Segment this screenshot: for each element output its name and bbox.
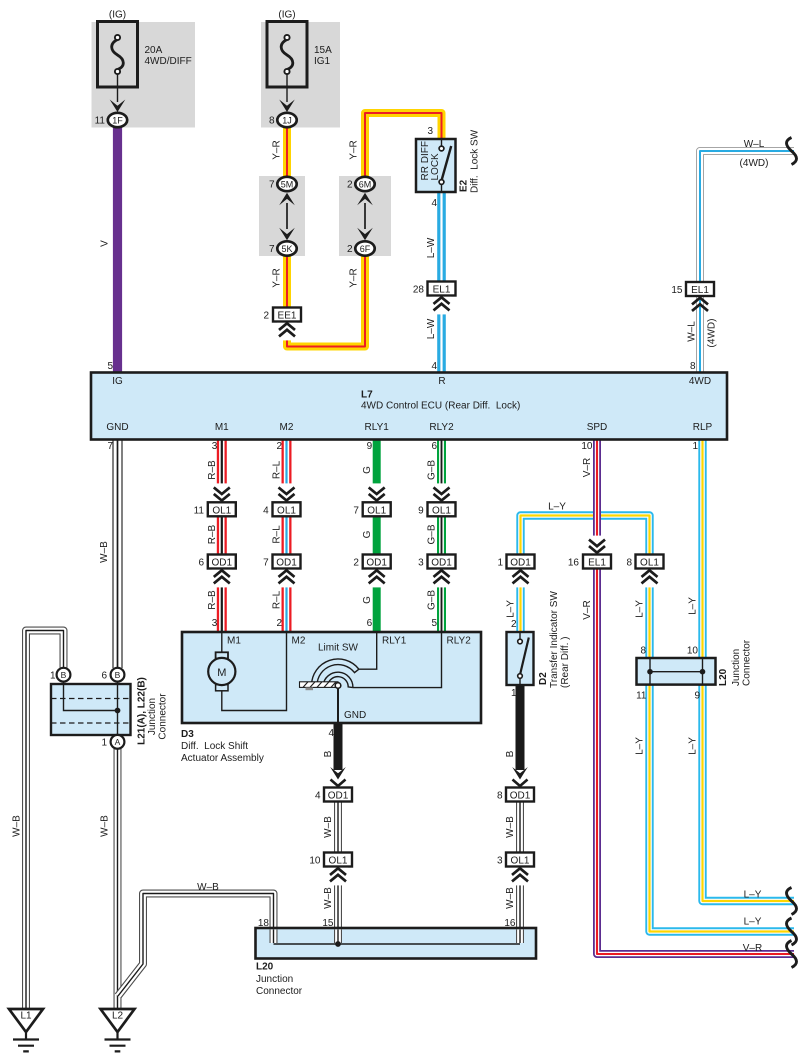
svg-text:G: G	[362, 466, 373, 474]
break squiggle W-L	[787, 138, 797, 165]
svg-text:3: 3	[212, 441, 218, 452]
ECU L7 4WD Control ECU (Rear Diff. Lock)	[91, 373, 727, 440]
wire Y-R connector 6M to E2 pin 3	[365, 113, 442, 178]
svg-text:L21(A), L22(B): L21(A), L22(B)	[136, 677, 147, 745]
svg-text:3: 3	[418, 558, 424, 569]
svg-text:2: 2	[353, 558, 359, 569]
wire L-W EL1 to ECU pin 4 R	[437, 313, 446, 373]
svg-text:9: 9	[418, 506, 424, 517]
svg-text:1F: 1F	[112, 115, 123, 125]
svg-text:W–L: W–L	[686, 321, 697, 342]
svg-text:L–Y: L–Y	[744, 890, 762, 901]
svg-text:RLY2: RLY2	[429, 422, 454, 433]
connector OD1 pin 3	[428, 555, 456, 569]
svg-text:4: 4	[431, 198, 437, 209]
svg-text:OD1: OD1	[510, 791, 531, 802]
svg-text:OL1: OL1	[432, 505, 451, 516]
label D2 Transfer Indicator SW (Rear Diff.)	[538, 591, 571, 688]
svg-text:EL1: EL1	[691, 285, 709, 296]
connector 6M	[355, 177, 374, 191]
connector block 6M/6F background	[339, 176, 391, 256]
svg-text:RLY1: RLY1	[382, 636, 407, 647]
svg-text:W–L: W–L	[744, 139, 765, 150]
svg-text:7: 7	[263, 558, 269, 569]
svg-text:Y–R: Y–R	[348, 268, 359, 287]
connector OD1 pin 6	[208, 555, 236, 569]
svg-text:7: 7	[269, 180, 275, 191]
svg-text:B: B	[61, 670, 67, 680]
svg-text:D2: D2	[538, 672, 549, 685]
svg-text:6: 6	[431, 441, 437, 452]
svg-text:5: 5	[431, 618, 437, 629]
connector 5K	[277, 241, 296, 255]
svg-text:OD1: OD1	[366, 558, 387, 569]
connector EL1 pin 28	[428, 282, 456, 296]
svg-text:B: B	[323, 750, 334, 757]
svg-text:OD1: OD1	[212, 558, 233, 569]
ECU terminal labels bottom	[106, 422, 712, 433]
label E2 Diff. Lock SW	[458, 129, 480, 193]
motor M inside D3	[208, 632, 286, 711]
svg-text:W–B: W–B	[323, 887, 334, 909]
svg-text:L–Y: L–Y	[634, 737, 645, 755]
wire W-B OL1 pin 3 to junction L20 pin 16	[516, 884, 524, 929]
svg-text:OL1: OL1	[277, 505, 296, 516]
svg-text:W–B: W–B	[99, 815, 110, 837]
svg-text:G–B: G–B	[427, 524, 438, 544]
svg-text:11: 11	[636, 691, 647, 702]
label RR DIFF LOCK inside E2	[420, 141, 441, 180]
svg-text:10: 10	[309, 856, 321, 867]
svg-text:W–B: W–B	[11, 815, 22, 837]
wire L-Y OD1 pin 1 to transfer indicator SW D2 pin 2	[516, 586, 524, 632]
svg-text:4: 4	[328, 728, 334, 739]
label L20 Junction Connector (right)	[718, 639, 753, 686]
svg-text:L–Y: L–Y	[687, 597, 698, 615]
svg-text:Junction: Junction	[256, 974, 293, 985]
svg-text:L–W: L–W	[426, 318, 437, 339]
svg-text:EE1: EE1	[278, 311, 297, 322]
wire W-B OD1 pin 4 to OL1 pin 10	[334, 802, 342, 853]
wire W-B ECU pin 7 GND to junction L21/L22 pin 6B	[112, 440, 122, 669]
ECU terminal labels top	[112, 376, 711, 387]
connector OL1 pin 11	[208, 502, 236, 516]
break squiggle L-Y upper	[787, 888, 797, 915]
terminal B pin 1 of L21	[57, 668, 71, 682]
svg-text:L20: L20	[718, 668, 729, 686]
svg-text:M1: M1	[215, 422, 229, 433]
wire W-B junction L21 pin 1B to ground L1	[26, 631, 64, 1010]
label L21(A) L22(B) Junction Connector	[136, 677, 168, 745]
svg-text:Junction: Junction	[731, 649, 742, 686]
svg-text:8: 8	[497, 791, 503, 802]
svg-text:2: 2	[511, 619, 517, 630]
svg-text:OL1: OL1	[367, 505, 386, 516]
wire L-Y OL1 pin 8 to junction L20 pin 8	[645, 586, 653, 659]
svg-text:Limit SW: Limit SW	[318, 643, 359, 654]
svg-text:3: 3	[212, 618, 218, 629]
svg-text:11: 11	[194, 506, 205, 517]
fuse box (IG) 20A 4WD/DIFF background	[92, 22, 196, 128]
arrow into OD1 pin 8	[512, 767, 528, 780]
svg-text:(4WD): (4WD)	[740, 158, 769, 169]
svg-text:6: 6	[198, 558, 204, 569]
fuse F2 15A IG1	[267, 22, 307, 88]
junction connector L21(A) L22(B)	[51, 682, 131, 736]
svg-text:R–B: R–B	[207, 524, 218, 544]
wire V-R ECU pin 10 SPD to EL1 pin 16	[593, 440, 601, 538]
wire V-R EL1 pin 16 to harness break bottom right	[597, 569, 794, 955]
terminal A pin 1 of L21	[111, 735, 125, 749]
svg-text:11: 11	[95, 116, 106, 127]
svg-text:8: 8	[626, 558, 632, 569]
switch D2 Transfer Indicator SW (Rear Diff.)	[507, 632, 534, 685]
svg-text:2: 2	[263, 311, 269, 322]
svg-text:IG: IG	[112, 376, 123, 387]
svg-text:RLY1: RLY1	[365, 422, 390, 433]
svg-text:6: 6	[101, 671, 107, 682]
wire W-B stub pin 16 inside L20	[516, 930, 524, 944]
svg-text:RLY2: RLY2	[447, 636, 472, 647]
wire G OD1 pin 2 to actuator D3 pin 6 RLY1	[373, 586, 381, 632]
svg-text:5: 5	[107, 361, 113, 372]
wire L-Y junction L20 pin 11 to harness break	[650, 684, 795, 932]
svg-text:9: 9	[694, 691, 700, 702]
svg-text:R–L: R–L	[272, 525, 283, 544]
wire R-B OD1 pin 6 to actuator D3 pin 3 M1	[217, 586, 227, 632]
svg-text:D3: D3	[181, 729, 194, 740]
label L7 4WD Control ECU	[361, 390, 520, 412]
wire R-B OL1 pin 11 to OD1 pin 6	[217, 516, 227, 554]
connector 1J	[277, 113, 296, 127]
limit switch symbol inside D3	[300, 632, 442, 723]
junction connector L20 (right)	[637, 658, 716, 685]
svg-text:10: 10	[687, 646, 699, 657]
svg-text:OD1: OD1	[510, 558, 531, 569]
svg-text:Diff. Lock Shift: Diff. Lock Shift	[181, 741, 248, 752]
svg-text:4WD Control ECU (Rear Diff. L: 4WD Control ECU (Rear Diff. Lock)	[361, 401, 520, 412]
svg-text:G: G	[362, 596, 373, 604]
svg-text:6F: 6F	[360, 244, 371, 254]
mating arrows between 6M and 6F	[364, 203, 366, 229]
svg-text:5K: 5K	[281, 244, 292, 254]
ground L1	[9, 1009, 43, 1051]
connector OD1 pin 1	[507, 555, 535, 569]
wire R-L OD1 pin 7 to actuator D3 pin 2 M2	[282, 586, 292, 632]
svg-text:(IG): (IG)	[109, 10, 126, 21]
svg-text:3: 3	[427, 126, 433, 137]
wire V from fuse 1F to ECU pin 5 IG	[113, 127, 122, 373]
junction connector L20 (bar)	[256, 928, 537, 959]
svg-text:R–B: R–B	[207, 590, 218, 610]
svg-text:1: 1	[101, 738, 107, 749]
svg-text:Y–R: Y–R	[271, 268, 282, 287]
svg-text:OL1: OL1	[511, 856, 530, 867]
svg-text:SPD: SPD	[587, 422, 608, 433]
svg-text:18: 18	[258, 918, 270, 929]
svg-text:R–L: R–L	[272, 460, 283, 479]
svg-text:V–R: V–R	[582, 600, 593, 619]
svg-text:28: 28	[413, 285, 425, 296]
svg-text:OL1: OL1	[640, 558, 659, 569]
svg-text:4WD/DIFF: 4WD/DIFF	[145, 56, 192, 67]
junction dot in L20 bar	[335, 941, 341, 947]
connector OL1 pin 9	[428, 502, 456, 516]
svg-text:2: 2	[347, 244, 353, 255]
wire L-Y ECU pin 1 RLP to junction L20 pin 10	[698, 440, 706, 660]
svg-text:Connector: Connector	[256, 986, 303, 997]
arrow into OD1 pin 4	[330, 767, 346, 780]
wire W-B branch from ground L2 riser to junction L20 pin 18	[118, 894, 274, 997]
connector 1F	[108, 113, 127, 127]
svg-text:6: 6	[367, 618, 373, 629]
svg-text:GND: GND	[106, 422, 128, 433]
pin labels 11 and 9 at L20 right	[636, 691, 700, 702]
wire L-W E2 pin 4 to EL1 pin 28	[437, 192, 446, 282]
mating arrows between 5M and 5K	[286, 203, 288, 229]
svg-text:V–R: V–R	[582, 458, 593, 477]
svg-text:Diff. Lock SW: Diff. Lock SW	[469, 129, 480, 193]
label 20A 4WD/DIFF	[145, 45, 192, 67]
svg-text:EL1: EL1	[433, 285, 451, 296]
wire R-B ECU pin 3 M1 to OL1 pin 11	[217, 440, 227, 486]
svg-text:L–Y: L–Y	[505, 600, 516, 618]
label L20 Junction Connector (bar)	[256, 962, 303, 998]
wire L-Y junction L20 pin 9 to harness break	[703, 684, 795, 901]
svg-text:6M: 6M	[359, 179, 372, 189]
wire W-B OL1 pin 10 to junction L20 pin 15	[334, 884, 342, 929]
wire Y-R below EE1 to connector 6F	[287, 255, 365, 347]
svg-text:1: 1	[511, 688, 517, 699]
svg-text:5M: 5M	[281, 179, 294, 189]
svg-text:G: G	[362, 530, 373, 538]
svg-text:4: 4	[315, 791, 321, 802]
svg-text:16: 16	[568, 558, 580, 569]
svg-text:R–L: R–L	[272, 590, 283, 609]
switch E2 RR DIFF LOCK (Diff. Lock SW)	[416, 139, 456, 192]
svg-text:4: 4	[431, 361, 437, 372]
break squiggle L-Y lower	[787, 918, 797, 945]
svg-text:Actuator Assembly: Actuator Assembly	[181, 753, 264, 764]
wire W-L EL1 pin 15 to harness break (4WD)	[700, 151, 794, 282]
connector OD1 pin 4	[324, 788, 352, 802]
break squiggle V-R	[787, 941, 797, 968]
connector OL1 pin 10	[324, 853, 352, 867]
wire B actuator D3 pin 4 GND to OD1 pin 4	[334, 723, 343, 770]
svg-text:1: 1	[692, 441, 698, 452]
svg-text:1: 1	[497, 558, 503, 569]
wire W-B junction L22 pin 1A to ground L2	[114, 749, 122, 1010]
wire G-B ECU pin 6 RLY2 to OL1 pin 9	[437, 440, 446, 486]
svg-text:M1: M1	[227, 636, 241, 647]
svg-text:EL1: EL1	[588, 558, 606, 569]
wire B transfer SW D2 pin 1 to OD1 pin 8	[516, 685, 525, 770]
svg-text:OD1: OD1	[276, 558, 297, 569]
svg-text:W–B: W–B	[505, 887, 516, 909]
svg-text:15A: 15A	[314, 45, 332, 56]
connector EL1 pin 15	[686, 282, 714, 296]
connector OL1 pin 7	[363, 502, 391, 516]
fuse box (IG) 15A IG1 background	[261, 22, 340, 128]
svg-text:V–R: V–R	[743, 943, 762, 954]
svg-text:Connector: Connector	[157, 693, 168, 740]
svg-text:(Rear Diff. ): (Rear Diff. )	[560, 637, 571, 689]
svg-text:L–Y: L–Y	[687, 737, 698, 755]
svg-text:L2: L2	[112, 1011, 124, 1022]
svg-text:1J: 1J	[282, 115, 292, 125]
fuse F1 20A 4WD/DIFF	[98, 22, 138, 88]
connector OD1 pin 2	[363, 555, 391, 569]
svg-text:GND: GND	[344, 710, 366, 721]
svg-text:L20: L20	[256, 962, 274, 973]
svg-text:OL1: OL1	[212, 505, 231, 516]
svg-text:2: 2	[276, 441, 282, 452]
svg-text:Y–R: Y–R	[271, 140, 282, 159]
svg-text:1: 1	[50, 671, 56, 682]
svg-text:8: 8	[640, 646, 646, 657]
label D3 Diff. Lock Shift Actuator Assembly	[181, 729, 264, 764]
svg-text:L1: L1	[20, 1011, 32, 1022]
connector block 5M/5K background	[259, 176, 305, 256]
svg-text:V: V	[99, 240, 110, 247]
connector OD1 pin 8	[506, 788, 534, 802]
svg-text:7: 7	[269, 244, 275, 255]
wire W-B stub pin 18 inside L20	[270, 930, 278, 944]
svg-text:7: 7	[353, 506, 359, 517]
ECU pin numbers below	[107, 441, 698, 452]
svg-text:W–B: W–B	[99, 541, 110, 563]
svg-text:G–B: G–B	[427, 460, 438, 480]
svg-text:B: B	[505, 750, 516, 757]
svg-text:Y–R: Y–R	[348, 140, 359, 159]
svg-text:W–B: W–B	[197, 882, 219, 893]
svg-text:IG1: IG1	[314, 56, 331, 67]
svg-text:L–Y: L–Y	[548, 502, 566, 513]
label 15A IG1	[314, 45, 332, 67]
svg-text:15: 15	[671, 285, 683, 296]
connector 6F	[355, 241, 374, 255]
lead from fuse F2 to connector 1J	[286, 74, 288, 102]
svg-text:4: 4	[263, 506, 269, 517]
svg-text:(4WD): (4WD)	[706, 319, 717, 348]
svg-text:2: 2	[276, 618, 282, 629]
connector OL1 pin 3	[506, 853, 534, 867]
wire G OL1 pin 7 to OD1 pin 2	[373, 516, 381, 554]
svg-text:M: M	[217, 667, 226, 679]
actuator D3 Diff. Lock Shift Actuator Assembly	[182, 632, 481, 723]
svg-text:B: B	[115, 670, 121, 680]
connector EE1 pin 2	[273, 308, 301, 322]
wire G-B OL1 pin 9 to OD1 pin 3	[437, 516, 446, 554]
wire W-B stub pin 15 inside L20	[334, 930, 342, 944]
svg-text:OL1: OL1	[329, 856, 348, 867]
svg-text:L–Y: L–Y	[744, 917, 762, 928]
svg-text:R: R	[438, 376, 445, 387]
svg-text:8: 8	[690, 361, 696, 372]
svg-text:W–B: W–B	[323, 816, 334, 838]
connector OD1 pin 7	[273, 555, 301, 569]
connector 5M	[277, 177, 296, 191]
wire R-L ECU pin 2 M2 to OL1 pin 4	[282, 440, 292, 486]
lead from fuse F1 to connector 1F	[117, 74, 119, 102]
connector OL1 pin 8	[636, 555, 664, 569]
wire Y-R connector 5K to EE1	[283, 255, 291, 308]
svg-text:E2: E2	[458, 179, 469, 192]
svg-text:L–W: L–W	[426, 237, 437, 258]
svg-text:Connector: Connector	[741, 639, 752, 686]
svg-text:L7: L7	[361, 390, 373, 401]
svg-text:7: 7	[107, 441, 113, 452]
wire Y-R fuse 1J to connector 5M	[283, 127, 291, 178]
wire G ECU pin 9 RLY1 to OL1 pin 7	[373, 440, 381, 486]
svg-text:(IG): (IG)	[278, 10, 295, 21]
svg-text:A: A	[115, 737, 121, 747]
wire L-Y bridge OD1 pin 1 to OL1 pin 8	[521, 516, 650, 555]
svg-text:20A: 20A	[145, 45, 163, 56]
svg-text:Transfer Indicator SW: Transfer Indicator SW	[549, 591, 560, 688]
svg-text:2: 2	[347, 180, 353, 191]
svg-text:LOCK: LOCK	[430, 153, 441, 181]
svg-text:Junction: Junction	[147, 698, 158, 735]
svg-text:RLP: RLP	[693, 422, 713, 433]
svg-text:4WD: 4WD	[689, 376, 711, 387]
wire W-B OD1 pin 8 to OL1 pin 3	[516, 802, 524, 853]
wire R-L OL1 pin 4 to OD1 pin 7	[282, 516, 292, 554]
svg-text:G–B: G–B	[427, 590, 438, 610]
svg-text:10: 10	[581, 441, 593, 452]
svg-text:W–B: W–B	[505, 816, 516, 838]
svg-text:8: 8	[269, 116, 275, 127]
svg-text:9: 9	[367, 441, 373, 452]
terminal B pin 6 of L22	[111, 668, 125, 682]
connector OL1 pin 4	[273, 502, 301, 516]
connector EL1 pin 16	[583, 555, 611, 569]
svg-text:OD1: OD1	[431, 558, 452, 569]
svg-text:L–Y: L–Y	[634, 600, 645, 618]
wire W-L ECU pin 8 4WD to EL1 pin 15	[696, 296, 704, 373]
D3 terminal labels	[227, 636, 471, 647]
svg-text:3: 3	[497, 856, 503, 867]
svg-text:M2: M2	[280, 422, 294, 433]
svg-text:R–B: R–B	[207, 460, 218, 480]
svg-text:M2: M2	[292, 636, 306, 647]
svg-text:OD1: OD1	[328, 791, 349, 802]
ground L2	[101, 1009, 135, 1051]
wire G-B OD1 pin 3 to actuator D3 pin 5 RLY2	[437, 586, 446, 632]
